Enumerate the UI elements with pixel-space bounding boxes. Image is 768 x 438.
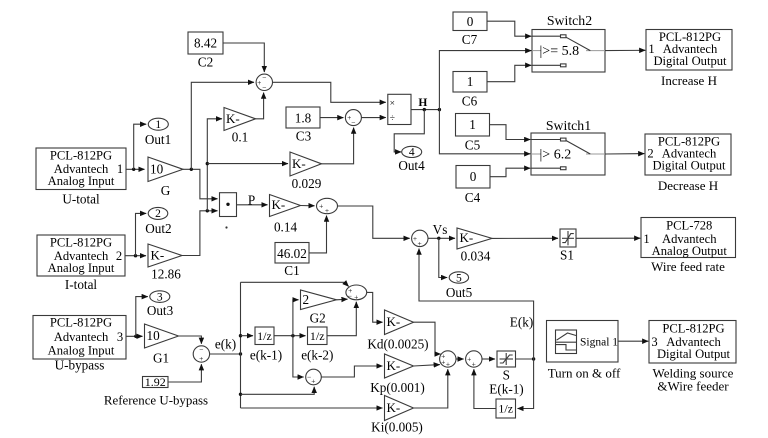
wire I-total to gain 12.86 xyxy=(125,255,146,257)
gain 0.034 (K-) xyxy=(457,228,492,249)
svg-text:P: P xyxy=(248,193,255,208)
svg-text:C4: C4 xyxy=(465,190,481,205)
input block U-bypass (PCL-812PG Advantech Analog Input, port 3) xyxy=(33,316,126,360)
svg-text:Digital Output: Digital Output xyxy=(653,54,727,68)
signal generator Signal 1 (Turn on & off) xyxy=(547,321,619,363)
svg-text:8.42: 8.42 xyxy=(194,36,217,51)
svg-text:+: + xyxy=(446,359,450,368)
outport Out5 xyxy=(449,272,468,283)
sum block Vs sum (+,+) xyxy=(412,230,428,246)
svg-text:1: 1 xyxy=(467,74,474,89)
outport Out3 xyxy=(150,291,170,303)
output block Decrease H (PCL-812PG Digital Output, port 2) xyxy=(645,134,731,175)
gain Kp (K-, Kp(0.001)) xyxy=(385,354,414,378)
svg-text:×: × xyxy=(390,99,395,109)
wire gain G output to corner xyxy=(183,169,218,199)
gain G (10) xyxy=(148,157,183,182)
svg-text:|> 6.2: |> 6.2 xyxy=(540,147,572,162)
svg-text:Analog Input: Analog Input xyxy=(48,344,115,358)
divide block (x /) xyxy=(388,94,411,124)
svg-text:Decrease H: Decrease H xyxy=(658,178,718,193)
wire current node up to gain 0.1 input xyxy=(207,119,222,211)
svg-text:K-: K- xyxy=(460,230,474,245)
svg-text:46.02: 46.02 xyxy=(277,246,307,261)
wire e(k) sum output to e(k) trunk xyxy=(210,353,241,355)
svg-text:Analog Input: Analog Input xyxy=(48,174,115,188)
svg-text:Wire feed rate: Wire feed rate xyxy=(651,259,725,274)
svg-text:3: 3 xyxy=(157,291,163,303)
wire e(k) trunk vertical xyxy=(240,282,242,408)
svg-text:Out5: Out5 xyxy=(446,285,473,300)
svg-text:Turn on & off: Turn on & off xyxy=(548,366,621,381)
svg-text:Out2: Out2 xyxy=(145,221,171,236)
junction on G output (voltage node) xyxy=(190,168,193,171)
svg-text:+: + xyxy=(319,202,323,211)
constant C5 (1) xyxy=(456,114,490,137)
wire e(k) trunk top to Kd sum input xyxy=(241,282,349,286)
svg-text:+: + xyxy=(417,239,421,248)
svg-text:Out1: Out1 xyxy=(145,132,171,147)
svg-text:Digital Output: Digital Output xyxy=(657,347,731,361)
wire unit delay E(k-1) output to PID sum B bottom input xyxy=(474,369,496,408)
gain 12.86 (K-) xyxy=(148,244,182,267)
wire C5 to Switch1 input 1 xyxy=(490,125,531,140)
svg-text:S: S xyxy=(503,368,510,383)
unit delay 1/z e(k-2) xyxy=(308,327,328,345)
junction H at switch trunk xyxy=(438,108,441,111)
outport Out2 xyxy=(148,207,168,219)
svg-text:Out4: Out4 xyxy=(398,158,425,173)
sum block Kd sum (+,-,+) xyxy=(346,285,367,300)
svg-text:PCL-812PG: PCL-812PG xyxy=(50,316,112,330)
sum block S2 (C2 sum, -,+,-) xyxy=(256,74,272,90)
svg-text:2: 2 xyxy=(647,147,653,161)
wire gain 0.14 output to sum S4 left input xyxy=(301,205,315,207)
svg-text:2: 2 xyxy=(303,292,310,307)
svg-text:C1: C1 xyxy=(284,263,299,278)
junction e(k-1) node xyxy=(291,334,294,337)
svg-text:0: 0 xyxy=(470,169,477,184)
svg-text:C6: C6 xyxy=(462,94,478,109)
svg-text:1.8: 1.8 xyxy=(295,111,312,126)
saturation S1 xyxy=(560,229,576,247)
svg-text:G: G xyxy=(161,183,171,198)
svg-text:&Wire feeder: &Wire feeder xyxy=(657,379,729,394)
wire gain Kp output to PID sum A xyxy=(414,365,440,366)
switch block Switch1 (> 6.2) xyxy=(531,133,605,175)
svg-text:+: + xyxy=(199,354,203,363)
svg-text:K-: K- xyxy=(226,111,240,126)
sum block S4 (0.14+C1 sum, +,+) xyxy=(317,198,338,213)
wire E(k) node down to unit delay E(k-1) xyxy=(518,359,534,409)
wire Switch2 output to Increase H block xyxy=(605,49,645,51)
wire Switch1 output to Decrease H block xyxy=(605,153,644,155)
svg-text:K-: K- xyxy=(387,400,401,415)
outport Out1 xyxy=(148,118,168,130)
svg-text:C7: C7 xyxy=(462,32,478,47)
wire C1 to sum S4 bottom input xyxy=(309,216,327,253)
unit delay 1/z E(k-1) feedback xyxy=(496,399,516,418)
wire unit delay e(k-1) output xyxy=(274,335,306,337)
wire e(k) trunk to unit delay e(k-1) xyxy=(241,335,254,337)
gain Kd (K-, Kd(0.0025)) xyxy=(385,310,414,335)
junction Vs node xyxy=(437,237,440,240)
svg-text:PCL-728: PCL-728 xyxy=(666,218,712,232)
wire gain Kd output to PID sum A xyxy=(414,322,441,354)
wire C2 to sum S2 top input xyxy=(223,43,264,72)
svg-text:Vs: Vs xyxy=(433,222,448,237)
wire up to Out2 xyxy=(136,213,147,255)
constant C6 (1) xyxy=(453,72,487,93)
svg-text:e(k): e(k) xyxy=(215,337,236,352)
svg-text:1.92: 1.92 xyxy=(145,375,166,389)
svg-text:1: 1 xyxy=(469,117,476,132)
wire PID sum B output to saturation S xyxy=(482,358,495,360)
svg-text:3: 3 xyxy=(117,330,123,344)
wire Vs node down to Out5 xyxy=(439,238,447,277)
gain G2 (2) xyxy=(301,290,337,310)
wire e(k) trunk bottom to gain Ki xyxy=(241,407,383,409)
junction e(k) trunk at 1/z branch xyxy=(239,334,242,337)
svg-text:K-: K- xyxy=(292,156,306,171)
wire gain 0.1 output to sum S2 bottom input xyxy=(256,93,264,119)
svg-text:G1: G1 xyxy=(153,351,169,366)
wire Kd sum output to gain Kd xyxy=(367,292,383,322)
svg-text:+: + xyxy=(311,376,315,385)
svg-text:U-bypass: U-bypass xyxy=(55,358,105,373)
output block Increase H (PCL-812PG Digital Output, port 1) xyxy=(646,30,732,71)
svg-text:5: 5 xyxy=(456,272,462,284)
input block U-total (PCL-812PG Advantech Analog Input, port 1) xyxy=(36,148,126,190)
svg-text:1/z: 1/z xyxy=(498,402,513,416)
constant C1 (46.02) xyxy=(275,243,309,264)
wire voltage node up to sum S2 left input xyxy=(191,82,254,169)
svg-text:C2: C2 xyxy=(198,55,213,70)
wire current node to gain 0.029 input xyxy=(207,163,288,165)
svg-text:2: 2 xyxy=(116,249,122,263)
svg-text:e(k-2): e(k-2) xyxy=(301,348,333,363)
sum block e(k) sum (-,+) xyxy=(193,346,209,362)
svg-text:1: 1 xyxy=(643,232,649,246)
svg-text:H: H xyxy=(418,97,427,109)
wire C6 to Switch2 input 3 xyxy=(487,65,531,81)
svg-text:Advantech: Advantech xyxy=(54,330,109,344)
junction on U-bypass output xyxy=(134,335,137,338)
wire e(k) trunk to Kp sum bottom input xyxy=(241,387,315,395)
svg-text:−: − xyxy=(262,83,266,92)
svg-text:+: + xyxy=(325,206,329,215)
svg-text:2: 2 xyxy=(155,208,161,220)
wire U-total to gain G xyxy=(126,168,145,170)
wire Kp sum output to gain Kp xyxy=(321,366,382,377)
junction on U-total output xyxy=(132,168,135,171)
wire E(k) node up and to Vs sum bottom input xyxy=(419,249,534,359)
sum block Kp sum (-,+) xyxy=(306,369,322,385)
wire C3 to sum S3 left input xyxy=(320,117,343,119)
svg-text:Reference U-bypass: Reference U-bypass xyxy=(104,394,208,408)
wire gain G2 output to Kd sum left input xyxy=(337,298,348,301)
product block (dot multiply) xyxy=(220,193,237,217)
wire saturation S output to E(k) node xyxy=(516,358,534,360)
svg-text:−: − xyxy=(262,73,266,82)
svg-text:K-: K- xyxy=(387,314,401,329)
svg-text:+: + xyxy=(472,359,476,368)
wire H to Out4 xyxy=(394,110,424,152)
constant C4 (0) xyxy=(456,166,490,189)
svg-text:C3: C3 xyxy=(296,129,312,144)
svg-text:0.034: 0.034 xyxy=(461,249,491,264)
svg-text:e(k-1): e(k-1) xyxy=(250,348,282,363)
unit delay 1/z e(k-1) xyxy=(255,327,274,345)
svg-text:0.029: 0.029 xyxy=(292,176,322,191)
svg-text:Out3: Out3 xyxy=(147,303,174,318)
svg-text:+: + xyxy=(441,358,445,367)
outport Out4 xyxy=(402,146,422,157)
svg-text:Digital Output: Digital Output xyxy=(652,158,726,172)
wire product output P to gain 0.14 xyxy=(237,204,268,206)
svg-text:−: − xyxy=(348,291,352,300)
svg-text:÷: ÷ xyxy=(390,114,395,124)
svg-text:0.1: 0.1 xyxy=(232,130,248,145)
wire gain 0.029 output to sum S3 bottom input xyxy=(322,128,354,164)
svg-text:K-: K- xyxy=(151,248,165,263)
svg-text:Switch1: Switch1 xyxy=(546,118,591,133)
svg-text:Signal 1: Signal 1 xyxy=(580,336,618,348)
wire sum S2 output to divide x input xyxy=(273,82,386,102)
gain 0.14 (K-) xyxy=(270,195,301,217)
svg-text:10: 10 xyxy=(147,328,161,343)
svg-text:I-total: I-total xyxy=(65,277,98,292)
svg-text:0: 0 xyxy=(467,14,474,29)
svg-text:K-: K- xyxy=(387,358,401,373)
svg-text:K-: K- xyxy=(272,197,286,212)
wire gain Ki output to PID sum A bottom input xyxy=(414,369,448,408)
svg-text:Kp(0.001): Kp(0.001) xyxy=(370,380,425,395)
svg-text:3: 3 xyxy=(651,335,657,349)
svg-text:PCL-812PG: PCL-812PG xyxy=(50,149,112,163)
svg-text:4: 4 xyxy=(409,147,415,159)
wire gain 12.86 output to product input 2 xyxy=(182,211,218,256)
wire constant 1.92 to e(k) sum bottom input xyxy=(168,364,201,382)
wire up to Out3 xyxy=(136,297,148,337)
svg-text:1: 1 xyxy=(155,119,161,131)
svg-text:+: + xyxy=(467,355,471,364)
svg-text:Kd(0.0025): Kd(0.0025) xyxy=(367,337,428,352)
junction e(k) trunk at Kp branch xyxy=(239,393,242,396)
svg-text:+: + xyxy=(257,78,261,87)
wire H trunk down to Switch1 middle input xyxy=(439,110,530,154)
wire Signal 1 to Welding output block xyxy=(618,340,648,342)
svg-text:Analog Output: Analog Output xyxy=(652,244,728,258)
wire saturation S1 to PCL-728 block xyxy=(576,237,640,239)
svg-text:Ki(0.005): Ki(0.005) xyxy=(371,420,423,435)
svg-text:1/z: 1/z xyxy=(257,329,272,343)
svg-text:+: + xyxy=(354,292,358,301)
junction current node xyxy=(206,209,209,212)
svg-text:+: + xyxy=(413,234,417,243)
sum block S3 (C3 sum, +,-) xyxy=(345,110,361,126)
svg-text:Increase H: Increase H xyxy=(661,73,717,88)
wire C7 to Switch2 input 1 xyxy=(487,21,531,36)
wire PID sum A output to PID sum B xyxy=(456,358,464,360)
svg-text:E(k): E(k) xyxy=(510,315,533,330)
wire gain G1 output to e(k) sum top input xyxy=(179,336,202,344)
svg-text:−: − xyxy=(351,118,355,127)
gain 0.029 (K-) xyxy=(290,152,322,176)
svg-text:S1: S1 xyxy=(560,248,574,263)
wire sum S3 output to divide / input xyxy=(361,117,385,119)
junction on I-total output xyxy=(134,254,137,257)
gain G1 (10) xyxy=(145,324,179,348)
sum block PID sum A (+,+,+) xyxy=(440,351,456,367)
input block I-total (PCL-812PG Advantech Analog Input, port 2) xyxy=(37,235,125,276)
constant C2 (8.42) xyxy=(188,32,223,54)
wire sum S4 output to Vs sum left input xyxy=(338,206,410,238)
junction current node at 0.029 branch xyxy=(206,162,209,165)
svg-text:−: − xyxy=(199,345,203,354)
svg-text:1/z: 1/z xyxy=(310,329,325,343)
svg-text:G2: G2 xyxy=(310,311,326,326)
switch block Switch2 (>= 5.8) xyxy=(532,30,605,73)
svg-text:0.14: 0.14 xyxy=(274,220,297,235)
svg-text:Switch2: Switch2 xyxy=(547,13,592,28)
saturation S xyxy=(497,351,516,367)
wire Vs sum output to gain 0.034 xyxy=(428,237,455,239)
wire C4 to Switch1 input 3 xyxy=(490,168,530,177)
svg-text:E(k-1): E(k-1) xyxy=(489,382,523,397)
wire gain 0.034 output to saturation S1 xyxy=(492,237,558,239)
junction e(k) trunk at sum output xyxy=(239,352,242,355)
svg-text:|>= 5.8: |>= 5.8 xyxy=(540,44,580,59)
wire divide output node H xyxy=(411,109,439,111)
constant 1.92 Reference U-bypass xyxy=(143,377,169,388)
output block Welding source (PCL-812PG Digital Output, port 3) xyxy=(649,321,736,364)
constant C7 (0) xyxy=(453,12,487,31)
wire e(k-1) node down to Kp sum left input xyxy=(293,336,304,377)
sum block PID sum B (+,+) xyxy=(466,351,482,367)
wire e(k-1) node up to gain G2 xyxy=(293,300,299,336)
svg-text:C5: C5 xyxy=(465,138,481,153)
svg-text:12.86: 12.86 xyxy=(151,267,181,282)
svg-text:1: 1 xyxy=(648,42,654,56)
gain 0.1 (K-) xyxy=(224,108,256,131)
output block Wire feed rate (PCL-728 Analog Output, port 1) xyxy=(641,218,736,258)
wire H trunk up to Switch2 middle input xyxy=(439,51,531,110)
svg-text:Analog Input: Analog Input xyxy=(48,261,115,275)
svg-text:PCL-812PG: PCL-812PG xyxy=(662,321,724,335)
svg-text:PCL-812PG: PCL-812PG xyxy=(50,236,112,250)
svg-text:10: 10 xyxy=(150,161,164,176)
wire unit delay e(k-2) output to Kd sum bottom input xyxy=(327,302,356,336)
junction H at Out4 branch xyxy=(423,108,426,111)
gain Ki (K-, Ki(0.005)) xyxy=(385,396,414,421)
wire U-bypass to gain G1 xyxy=(126,335,143,337)
svg-text:U-total: U-total xyxy=(62,192,100,207)
constant C3 (1.8) xyxy=(286,107,320,128)
junction E(k) node xyxy=(532,357,535,360)
wire up to Out1 xyxy=(134,124,147,169)
svg-text:1: 1 xyxy=(117,162,123,176)
